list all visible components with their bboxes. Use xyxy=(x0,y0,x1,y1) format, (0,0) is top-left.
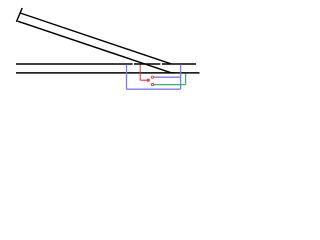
end-of-track bumper cap xyxy=(16,8,22,22)
straight track lower rail xyxy=(16,72,200,74)
blue feeder left drop xyxy=(126,64,128,89)
diagonal track upper rail xyxy=(20,13,171,64)
blue feeder right riser xyxy=(180,64,182,89)
diagonal track lower rail xyxy=(18,21,171,72)
switch lower contact circle xyxy=(151,84,153,86)
switch upper contact circle xyxy=(151,76,153,78)
blue wire from switch upper contact xyxy=(154,76,181,78)
straight track upper rail segment B xyxy=(134,63,160,65)
red switch pole dot xyxy=(147,79,150,82)
diagonal track lower rail merge tail xyxy=(171,72,175,74)
blue feeder bottom run xyxy=(127,88,181,90)
green wire from switch lower contact xyxy=(154,84,186,86)
straight track upper rail segment C xyxy=(162,63,196,65)
red switch pole lead xyxy=(140,79,148,81)
green wire riser to lower rail xyxy=(185,74,187,85)
straight track upper rail segment A xyxy=(16,63,133,65)
red frog feed drop from rail xyxy=(139,65,141,81)
